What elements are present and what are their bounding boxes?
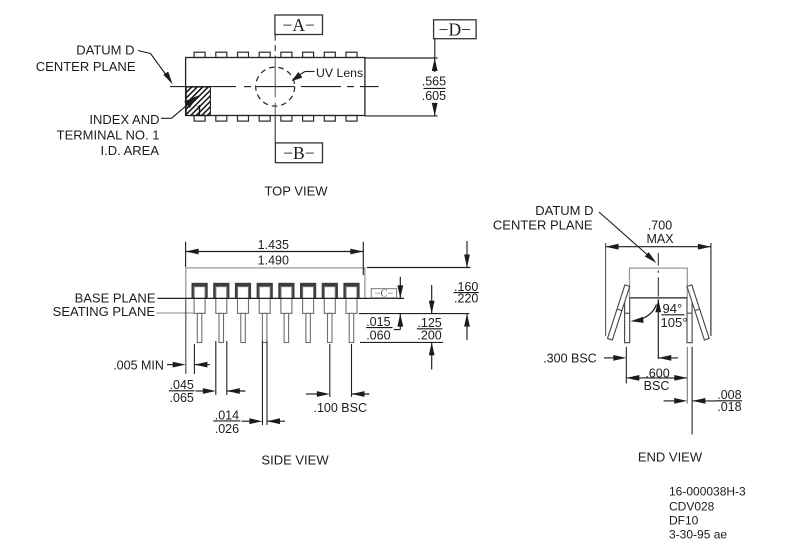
svg-text:TERMINAL NO. 1: TERMINAL NO. 1 xyxy=(57,128,160,143)
svg-text:END VIEW: END VIEW xyxy=(638,450,703,465)
svg-text:3-30-95 ae: 3-30-95 ae xyxy=(669,528,727,542)
svg-text:CENTER PLANE: CENTER PLANE xyxy=(36,59,136,74)
dimension .600 BSC xyxy=(626,347,692,435)
caption END VIEW xyxy=(638,450,703,465)
top view: UV Lens label with leader arrow xyxy=(292,66,364,82)
datum flag -A- xyxy=(275,15,323,35)
svg-text:DATUM D: DATUM D xyxy=(76,43,134,58)
side view: package body outline xyxy=(186,268,365,299)
svg-text:−B−: −B− xyxy=(283,143,315,163)
svg-text:SEATING PLANE: SEATING PLANE xyxy=(53,304,156,319)
svg-text:.005 MIN: .005 MIN xyxy=(113,358,164,372)
top view: bottom row pin leads xyxy=(194,116,357,122)
svg-text:94°: 94° xyxy=(663,301,683,316)
dimension .005 MIN xyxy=(113,298,209,374)
end view: vertical center line (datum D) xyxy=(657,253,659,297)
datum flag -D- with stem xyxy=(434,20,477,58)
title block: drawing number and revision notes xyxy=(669,484,746,541)
datum flag -C- xyxy=(371,289,396,300)
svg-text:1.490: 1.490 xyxy=(258,254,289,268)
svg-text:.220: .220 xyxy=(454,292,478,306)
end view: base plane line xyxy=(630,297,688,299)
side view: right extension lines (top, seating, pin tip) xyxy=(359,268,471,343)
svg-text:MAX: MAX xyxy=(646,232,674,246)
dimension .100 BSC xyxy=(306,344,370,415)
dimension .565/.605 (top view body width) xyxy=(365,58,446,116)
svg-text:.060: .060 xyxy=(366,329,390,343)
top view: top row pin leads xyxy=(194,52,357,57)
svg-text:UV Lens: UV Lens xyxy=(316,66,363,80)
end view: right lead splayed position with tick xyxy=(687,285,709,340)
svg-text:.026: .026 xyxy=(215,422,239,436)
svg-text:.565: .565 xyxy=(422,75,446,89)
side view: pin lower (narrow) segments xyxy=(197,313,353,342)
side view: base plane line xyxy=(158,297,405,299)
svg-text:.700: .700 xyxy=(648,218,672,232)
svg-text:INDEX AND: INDEX AND xyxy=(89,112,159,127)
dimension .045/.065 xyxy=(169,341,246,405)
end view: package body outline xyxy=(630,268,688,298)
svg-text:CENTER PLANE: CENTER PLANE xyxy=(493,218,593,233)
top view: horizontal center line (datum D center plane) xyxy=(170,86,379,88)
svg-text:.605: .605 xyxy=(422,89,446,103)
svg-text:CDV028: CDV028 xyxy=(669,500,715,514)
dimension .125/.200 xyxy=(417,285,443,370)
label INDEX AND TERMINAL NO. 1 I.D. AREA with leader arrow xyxy=(57,95,199,158)
label SEATING PLANE with leader xyxy=(53,304,194,319)
caption SIDE VIEW xyxy=(261,453,329,468)
svg-text:TOP VIEW: TOP VIEW xyxy=(264,184,328,199)
svg-text:−D−: −D− xyxy=(439,20,472,40)
end view: right lead nominal position with seating tick xyxy=(687,287,692,343)
svg-text:−A−: −A− xyxy=(283,15,316,35)
svg-text:SIDE VIEW: SIDE VIEW xyxy=(261,453,329,468)
label DATUM D / CENTER PLANE (top view) with leader arrow xyxy=(36,43,173,85)
top view: terminal number 1 xyxy=(195,102,203,119)
svg-text:.015: .015 xyxy=(366,315,390,329)
datum flag -B- xyxy=(275,143,322,163)
caption TOP VIEW xyxy=(264,184,328,199)
top view: package body xyxy=(186,58,365,116)
side view: dark pin shoulder blocks xyxy=(192,283,360,299)
svg-text:DATUM D: DATUM D xyxy=(535,203,593,218)
svg-text:1: 1 xyxy=(195,102,203,119)
svg-text:.100 BSC: .100 BSC xyxy=(314,401,368,415)
svg-text:BSC: BSC xyxy=(644,379,670,393)
svg-text:DF10: DF10 xyxy=(669,514,699,528)
dimension .015/.060 xyxy=(366,277,403,343)
dimension .300 BSC xyxy=(543,347,678,384)
top view: index / terminal 1 hatched I.D. area xyxy=(143,70,253,130)
angle dimension 94/105 degrees xyxy=(630,299,687,359)
svg-text:1.435: 1.435 xyxy=(258,238,289,252)
svg-text:.014: .014 xyxy=(215,408,239,422)
svg-text:−C−: −C− xyxy=(375,289,394,300)
svg-text:I.D. AREA: I.D. AREA xyxy=(100,143,159,158)
svg-text:.200: .200 xyxy=(417,328,441,342)
dimension .700 MAX xyxy=(606,218,711,336)
svg-text:.300 BSC: .300 BSC xyxy=(543,351,597,365)
top view: UV lens dashed circle xyxy=(256,67,295,106)
end view: left lead splayed position with tick xyxy=(608,285,630,340)
svg-text:.065: .065 xyxy=(170,391,194,405)
dimension .014/.026 xyxy=(213,341,285,436)
svg-text:16-000038H-3: 16-000038H-3 xyxy=(669,484,746,498)
svg-text:105°: 105° xyxy=(661,315,688,330)
top view: vertical center line xyxy=(274,35,276,143)
label DATUM D / CENTER PLANE (end view) with leader arrow xyxy=(493,203,657,263)
dimension .160/.220 xyxy=(454,241,479,340)
dimension 1.435/1.490 (body length) xyxy=(186,238,364,275)
svg-text:.018: .018 xyxy=(717,400,741,414)
end view: left lead nominal position with seating tick xyxy=(625,287,630,343)
label BASE PLANE xyxy=(75,290,156,305)
dimension .008/.018 xyxy=(664,388,743,414)
side view: pin upper (wide) segments xyxy=(194,287,357,314)
